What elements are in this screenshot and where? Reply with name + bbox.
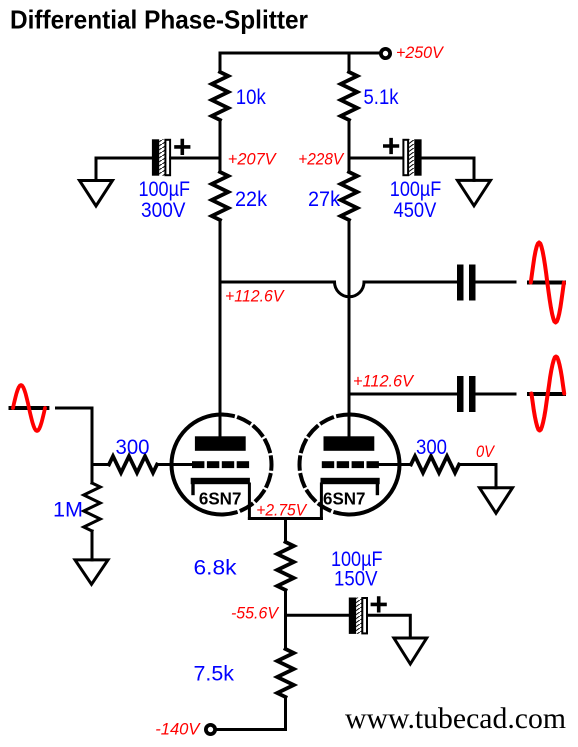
svg-text:300: 300 <box>116 436 150 459</box>
svg-text:0V: 0V <box>476 442 495 461</box>
svg-text:300: 300 <box>416 436 447 459</box>
svg-text:300V: 300V <box>141 199 186 222</box>
wire R7 to -140V terminal <box>217 697 286 730</box>
terminal +250V <box>381 49 390 58</box>
svg-text:+112.6V: +112.6V <box>353 372 415 391</box>
triode U2 plate <box>324 436 375 451</box>
svg-text:1M: 1M <box>53 498 83 521</box>
svg-text:Differential Phase-Splitter: Differential Phase-Splitter <box>10 5 308 35</box>
triode U1 cathode <box>191 478 250 494</box>
wire U1 cathode lead <box>248 484 251 519</box>
svg-text:22k: 22k <box>235 188 267 211</box>
wire right column 27k down to U2 plate <box>348 220 351 437</box>
resistor 27k <box>341 172 358 220</box>
wire ground to C1 <box>96 158 152 181</box>
wire input node to R3 <box>92 463 109 466</box>
svg-text:5.1k: 5.1k <box>364 86 399 109</box>
svg-text:27k: 27k <box>308 188 340 211</box>
wire node -55.6V to C5 <box>286 614 349 617</box>
wire U2 cathode lead <box>320 484 323 519</box>
output sine (top) <box>531 243 564 323</box>
resistor 10k <box>212 72 229 120</box>
wire 1M to ground <box>91 531 94 560</box>
wire C5 to ground <box>368 615 411 638</box>
svg-text:+228V: +228V <box>298 149 344 168</box>
svg-text:www.tubecad.com: www.tubecad.com <box>345 702 566 735</box>
wire left column rail to 10k <box>219 53 222 72</box>
wire cathode bus to R6 <box>284 519 287 543</box>
input source line <box>9 406 50 410</box>
svg-text:6SN7: 6SN7 <box>199 489 242 509</box>
resistor 5.1k <box>341 72 358 120</box>
svg-text:+2.75V: +2.75V <box>256 501 307 520</box>
capacitor C1 100uF 300V <box>152 139 170 175</box>
output sine (bottom) <box>531 357 564 431</box>
label C1 plus sign <box>176 141 189 154</box>
svg-text:+207V: +207V <box>228 149 277 168</box>
triode U1 envelope (solid left arc) <box>171 415 221 515</box>
svg-text:150V: 150V <box>334 568 378 591</box>
wire input to grid node <box>57 408 93 465</box>
svg-text:6SN7: 6SN7 <box>323 489 366 509</box>
triode U2 cathode <box>321 478 380 494</box>
resistor R6 6.8k <box>277 542 294 590</box>
wire C2 to ground <box>422 158 474 180</box>
wire B+ top rail <box>220 52 380 55</box>
svg-text:+250V: +250V <box>396 43 444 62</box>
wire hop to coupling cap C3 <box>364 281 457 284</box>
wire right column rail to 5.1k <box>348 53 351 72</box>
ground (left bypass) <box>80 181 113 207</box>
capacitor C2 100uF 450V <box>403 139 421 175</box>
output line (top) <box>527 281 566 285</box>
svg-text:+112.6V: +112.6V <box>225 286 285 305</box>
svg-text:450V: 450V <box>394 199 437 222</box>
svg-text:-140V: -140V <box>155 720 201 739</box>
capacitor C3 (top coupling) <box>457 265 476 301</box>
wire hop over right column <box>335 282 365 297</box>
terminal -140V <box>206 725 215 734</box>
ground (right bypass) <box>458 180 491 205</box>
capacitor C4 (bottom coupling) <box>457 376 476 412</box>
wire C1 to node +207V <box>171 157 220 160</box>
resistor R3 300 (left grid stopper) <box>109 456 157 473</box>
wire R3 to U1 grid <box>157 463 192 466</box>
svg-text:7.5k: 7.5k <box>194 663 235 686</box>
triode U1 plate <box>195 436 246 451</box>
svg-text:6.8k: 6.8k <box>194 557 238 580</box>
output line (bottom) <box>527 392 566 396</box>
svg-text:100µF: 100µF <box>139 178 191 201</box>
ground (right grid) <box>480 488 513 513</box>
svg-text:10k: 10k <box>236 86 266 109</box>
wire upper output: node to hop <box>220 281 335 284</box>
resistor R7 7.5k <box>277 649 294 697</box>
wire R6 to R7 through node -55.6V <box>284 590 287 649</box>
triode U2 envelope (dashed left arc) <box>300 415 350 515</box>
label C5 plus sign <box>372 598 385 611</box>
wire cathode bus <box>249 517 321 520</box>
label C2 plus sign <box>385 140 398 153</box>
resistor R5 300 (right grid stopper) <box>411 456 459 473</box>
wire left column 10k to 22k through node +207V <box>219 120 222 172</box>
resistor 22k <box>212 172 229 220</box>
ground (input) <box>75 560 108 584</box>
triode U1 envelope (dashed right arc) <box>222 415 272 515</box>
capacitor C5 100uF 150V <box>349 598 367 634</box>
wire U2 grid to R5 <box>379 463 411 466</box>
input sine <box>13 385 45 431</box>
svg-text:100µF: 100µF <box>390 178 442 201</box>
resistor R4 1M (grid leak) <box>84 465 101 532</box>
wire lower output: node +112.6V to coupling cap C4 <box>349 393 457 396</box>
wire left column 22k down to U1 plate <box>219 220 222 437</box>
wire node +228V to C2 <box>349 157 403 160</box>
triode U1 grid <box>192 461 249 468</box>
triode U2 grid <box>322 461 379 468</box>
wire right column 5.1k to 27k through node +228V <box>348 120 351 172</box>
wire R5 to ground <box>459 465 496 488</box>
wire C4 to output <box>476 393 516 396</box>
wire C3 to output <box>476 281 516 284</box>
triode U2 envelope (solid right arc) <box>350 415 400 515</box>
svg-text:-55.6V: -55.6V <box>231 604 280 623</box>
ground (cathode bypass) <box>394 638 427 664</box>
